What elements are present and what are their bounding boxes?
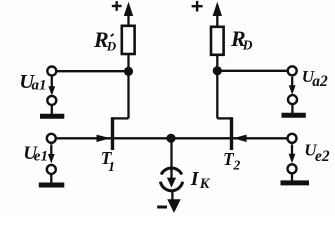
svg-text:a1: a1 xyxy=(32,77,47,93)
svg-text:D: D xyxy=(242,37,253,52)
svg-text:1: 1 xyxy=(108,160,115,175)
svg-text:a2: a2 xyxy=(312,73,328,90)
svg-text:e1: e1 xyxy=(34,149,48,165)
svg-text:I: I xyxy=(190,168,200,190)
svg-text:2: 2 xyxy=(233,158,241,173)
svg-text:D: D xyxy=(106,38,117,53)
svg-text:K: K xyxy=(199,176,211,192)
svg-text:e2: e2 xyxy=(315,148,330,165)
